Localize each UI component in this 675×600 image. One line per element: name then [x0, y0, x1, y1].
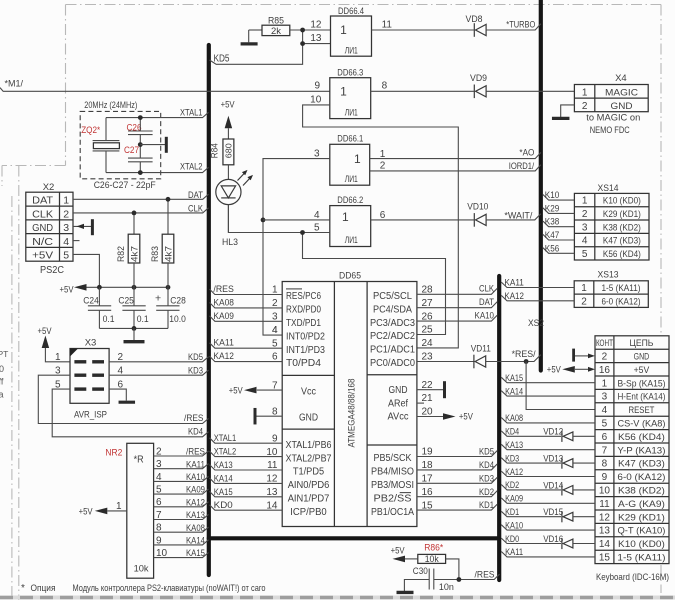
svg-text:25: 25: [422, 325, 434, 336]
ground stub of crystal caps: [140, 144, 165, 146]
svg-text:PB4/MISO: PB4/MISO: [371, 467, 414, 478]
wire net KD0 to XS2 via VD16: [501, 538, 561, 543]
connector XS14: [574, 193, 649, 260]
svg-text:XTAL1: XTAL1: [214, 433, 237, 444]
svg-text:KA12: KA12: [186, 497, 205, 508]
junction dot XTAL1/C26: [138, 115, 143, 120]
svg-text:8: 8: [382, 80, 388, 91]
svg-text:K10 (KD0): K10 (KD0): [618, 539, 665, 550]
svg-text:KA14: KA14: [214, 473, 233, 484]
svg-text:DD66.4: DD66.4: [338, 6, 364, 17]
svg-text:2: 2: [602, 352, 608, 363]
svg-text:PT: PT: [0, 349, 8, 359]
wire DD65 net KD5 to keyboard bus: [417, 451, 497, 457]
svg-text:KA11: KA11: [504, 278, 524, 289]
svg-text:T1/PD5: T1/PD5: [293, 467, 325, 478]
wire DD65 pin27 DAT: [417, 302, 497, 308]
microcontroller DD65 ATMEGA48/88/168: [282, 282, 417, 527]
wire net KA11 to XS13: [501, 282, 574, 287]
wire net K56 to XS14: [543, 248, 575, 254]
connector X3: [70, 349, 109, 404]
svg-text:VD11: VD11: [471, 344, 491, 355]
svg-text:ЦЕПЬ: ЦЕПЬ: [629, 338, 653, 349]
svg-text:3: 3: [582, 222, 588, 233]
wire net K38 to XS14: [543, 221, 575, 227]
svg-text:3: 3: [314, 149, 320, 160]
svg-text:K56 (KD4): K56 (KD4): [603, 249, 641, 260]
svg-text:DD65: DD65: [339, 270, 361, 281]
ground at X3 pin6: [109, 389, 126, 400]
svg-text:5: 5: [582, 249, 588, 260]
wire DD65 pin3 KA09: [210, 316, 283, 321]
svg-text:/RES: /RES: [213, 284, 234, 295]
svg-text:AVcc: AVcc: [388, 412, 409, 423]
wire net KD4 (X3 pin5): [52, 389, 208, 437]
wire NR2 pin9 net KA14: [154, 540, 209, 545]
svg-text:KA09: KA09: [213, 311, 234, 322]
svg-text:10: 10: [156, 548, 168, 559]
svg-text:KA09: KA09: [186, 485, 205, 496]
svg-text:KD5: KD5: [479, 447, 494, 458]
svg-text:ЛИ1: ЛИ1: [345, 235, 358, 245]
svg-text:PS2C: PS2C: [40, 265, 64, 276]
svg-text:KA08: KA08: [505, 413, 523, 424]
stub X2 pin4 N/C: [73, 240, 80, 242]
svg-text:4: 4: [602, 405, 608, 416]
wire NR2 pin10 net KA15: [154, 553, 209, 558]
wire NR2 pin6 net KA12: [154, 502, 209, 507]
svg-text:R83: R83: [150, 246, 160, 262]
resistor R85: [249, 29, 262, 31]
dashed box around crystal: [80, 111, 161, 178]
svg-text:2: 2: [156, 446, 162, 457]
gate DD66.3: [330, 78, 371, 119]
svg-text:R86*: R86*: [424, 542, 443, 553]
gate DD66.1: [330, 144, 370, 185]
svg-text:IORD1/: IORD1/: [509, 161, 535, 172]
svg-text:7: 7: [156, 510, 162, 521]
svg-text:KA12: KA12: [504, 291, 524, 302]
wire DD65 net KD1 to keyboard bus: [417, 504, 497, 510]
svg-text:Опция: Опция: [31, 583, 56, 594]
svg-text:12: 12: [599, 512, 611, 523]
svg-text:14: 14: [599, 539, 611, 550]
svg-text:KD4: KD4: [505, 427, 519, 438]
svg-text:C27: C27: [124, 145, 139, 156]
svg-text:K38: K38: [545, 217, 560, 228]
svg-text:KA12: KA12: [505, 467, 523, 478]
svg-text:K47: K47: [545, 230, 560, 241]
connector XS13: [574, 281, 648, 308]
svg-text:15: 15: [599, 553, 611, 564]
wire DD65 net KD3 to keyboard bus: [417, 477, 497, 483]
svg-text:1: 1: [55, 352, 61, 363]
svg-text:+: +: [155, 293, 161, 305]
svg-text:1: 1: [340, 84, 347, 98]
svg-text:КОНТ: КОНТ: [596, 338, 613, 348]
wire DD65 pin1 /RES: [210, 289, 283, 294]
svg-text:GND: GND: [32, 222, 53, 234]
bus bottom horizontal: [209, 536, 499, 540]
wire R85 to DD66.4 pins 12/13: [290, 29, 331, 31]
wire net DAT (X2 pin1): [73, 194, 209, 199]
svg-text:Y-P (KA13): Y-P (KA13): [617, 445, 665, 456]
svg-text:KA11: KA11: [213, 338, 234, 349]
svg-text:+5V: +5V: [547, 365, 562, 376]
wire net /RES (X3 pin3): [38, 375, 208, 423]
svg-text:8: 8: [156, 523, 162, 534]
wire NR2 pin7 net KA13: [154, 514, 209, 519]
wire NR2 pin2 net /RES: [154, 451, 209, 456]
svg-text:R84: R84: [209, 143, 219, 158]
diode VD10: [371, 219, 474, 221]
svg-text:T0/PD4: T0/PD4: [286, 358, 321, 369]
svg-text:KD4: KD4: [188, 427, 203, 438]
svg-text:DAT: DAT: [32, 195, 54, 207]
svg-text:DAT: DAT: [479, 297, 494, 308]
svg-text:INT1/PD3: INT1/PD3: [286, 345, 325, 356]
svg-text:K29 (KD1): K29 (KD1): [603, 209, 641, 220]
svg-text:R82: R82: [116, 246, 126, 262]
svg-text:KD3: KD3: [505, 453, 519, 464]
svg-text:CLK: CLK: [479, 284, 495, 295]
diode VD9: [371, 90, 474, 92]
diode VD11 and net *RES/: [417, 361, 474, 363]
svg-text:ICP/PB0: ICP/PB0: [290, 507, 327, 518]
svg-text:PC4/SDA: PC4/SDA: [373, 304, 412, 315]
svg-text:6-0 (KA12): 6-0 (KA12): [602, 296, 641, 307]
wire DD65 pin net XTAL2: [210, 451, 283, 456]
svg-text:13: 13: [310, 33, 322, 44]
svg-text:680: 680: [224, 143, 234, 158]
svg-text:XS13: XS13: [598, 270, 619, 281]
wire net KA09 to XS2: [501, 498, 595, 503]
svg-text:10k: 10k: [425, 554, 439, 564]
wire net KD3 (X3 pin4): [109, 370, 208, 375]
ground at XS2 pin2: [572, 349, 575, 362]
svg-text:C26: C26: [127, 122, 142, 133]
svg-text:KD5: KD5: [188, 352, 203, 363]
resistor R84: [223, 139, 234, 165]
wire net *AO: [370, 153, 541, 159]
ground at X2 pin3: [73, 225, 91, 227]
svg-text:X4: X4: [615, 73, 627, 84]
svg-text:VD14: VD14: [543, 480, 563, 491]
svg-text:0: 0: [0, 364, 4, 374]
svg-text:CLK: CLK: [188, 203, 204, 214]
wire DD65 pin28 CLK to keyboard bus: [417, 288, 497, 294]
svg-text:1: 1: [602, 378, 608, 389]
svg-text:ЛИ1: ЛИ1: [345, 108, 358, 118]
svg-text:K38 (KD2): K38 (KD2): [603, 222, 641, 233]
ground at C30: [397, 591, 414, 594]
svg-text:GND: GND: [611, 101, 633, 112]
resistor R83: [167, 199, 169, 234]
svg-text:+5V: +5V: [38, 326, 53, 337]
svg-text:C26-C27 - 22pF: C26-C27 - 22pF: [94, 180, 156, 191]
svg-text:4: 4: [582, 236, 588, 247]
wire DD65 net KD4 to keyboard bus: [417, 464, 497, 470]
svg-text:DD66.2: DD66.2: [337, 195, 363, 206]
wire DD66.2 pin5 / HL3 cathode / DD65 pin25: [228, 205, 329, 233]
wire net K47 to XS14: [543, 234, 575, 240]
svg-text:1: 1: [116, 501, 122, 512]
svg-text:/RES: /RES: [184, 413, 204, 424]
svg-text:*R: *R: [134, 454, 144, 465]
svg-text:Vcc: Vcc: [301, 386, 316, 397]
wire RESET from *RES/ to XS2 pin4: [526, 362, 595, 410]
svg-text:K10 (KD0): K10 (KD0): [603, 196, 641, 207]
svg-text:a: a: [0, 390, 4, 400]
connector X4: [574, 85, 648, 112]
svg-text:10n: 10n: [439, 582, 454, 593]
wire DD65 pin net KD0: [210, 505, 283, 510]
svg-text:X3: X3: [85, 337, 97, 348]
wire R86 to /RES node: [446, 559, 459, 580]
svg-text:C30: C30: [413, 566, 428, 577]
junction dots on +5V rail: [97, 285, 102, 290]
svg-text:K56: K56: [545, 243, 560, 254]
svg-text:KA09: KA09: [505, 494, 523, 505]
svg-text:4k7: 4k7: [129, 246, 139, 262]
svg-text:+5V: +5V: [221, 100, 236, 111]
svg-text:KA10: KA10: [505, 520, 523, 531]
wire XTAL2 bottom: [106, 167, 209, 172]
svg-text:16: 16: [599, 365, 611, 376]
svg-text:PC3/ADC3: PC3/ADC3: [370, 318, 415, 329]
svg-text:C25: C25: [118, 295, 133, 306]
svg-text:KA11: KA11: [505, 547, 523, 558]
wire net KA12 to XS13: [501, 295, 574, 300]
svg-text:XTAL1: XTAL1: [180, 107, 203, 118]
svg-text:11: 11: [382, 20, 393, 31]
svg-text:KD3: KD3: [188, 366, 203, 377]
svg-text:B-Sp (KA15): B-Sp (KA15): [617, 378, 665, 389]
svg-text:KA15: KA15: [505, 373, 523, 384]
svg-text:K38 (KD2): K38 (KD2): [618, 486, 665, 497]
wire net KD4 to XS2 via VD12: [501, 431, 561, 436]
wire net /RES to keyboard bus: [434, 574, 500, 579]
svg-text:A-G (KA9): A-G (KA9): [618, 499, 665, 510]
wire DD65 pin6 KA12: [210, 356, 283, 361]
svg-text:KA15: KA15: [214, 487, 233, 498]
svg-text:5: 5: [272, 338, 278, 349]
ground DD65 pin22: [417, 389, 443, 391]
svg-text:*M1/: *M1/: [5, 78, 24, 89]
svg-text:1: 1: [582, 87, 588, 98]
svg-text:VD15: VD15: [543, 507, 563, 518]
svg-text:9: 9: [602, 472, 608, 483]
svg-text:23: 23: [422, 352, 434, 363]
connector XS2 table: [595, 336, 669, 564]
wire net K29 to XS14: [543, 208, 575, 214]
wire DD66.2 pin4: [263, 219, 330, 221]
svg-text:AIN0/PD6: AIN0/PD6: [288, 480, 330, 491]
wire DD65 pin net KA13: [210, 465, 283, 470]
op-amp gate DD66.4: [331, 16, 372, 56]
svg-text:CS-V (KA8): CS-V (KA8): [617, 419, 665, 430]
svg-text:+5V: +5V: [391, 546, 406, 557]
wire net KA11 to XS2: [501, 552, 595, 557]
svg-text:C28: C28: [170, 295, 186, 306]
svg-text:7: 7: [602, 445, 608, 456]
svg-text:XS14: XS14: [598, 183, 619, 194]
svg-text:+5V: +5V: [229, 385, 244, 396]
svg-text:3: 3: [156, 459, 162, 470]
svg-text:RXD/PD0: RXD/PD0: [286, 305, 321, 316]
wire net K10 to XS14: [543, 195, 575, 201]
wire NR2 pin3 net KA11: [154, 464, 209, 469]
svg-text:2k: 2k: [271, 26, 282, 36]
wire NR2 pin5 net KA09: [154, 489, 209, 494]
svg-text:24: 24: [422, 338, 434, 349]
svg-text:KD0: KD0: [214, 500, 233, 511]
wire net KA15 to XS2: [501, 377, 595, 382]
svg-text:ATMEGA48/88/168: ATMEGA48/88/168: [347, 379, 358, 448]
svg-text:1: 1: [342, 210, 349, 224]
svg-text:C24: C24: [83, 295, 99, 306]
svg-text:3: 3: [602, 392, 608, 403]
+5V arrow DD65 pin7: [257, 389, 282, 391]
svg-text:13: 13: [599, 526, 611, 537]
svg-text:10k: 10k: [134, 564, 149, 575]
svg-text:2: 2: [582, 101, 588, 112]
svg-text:*TURBO: *TURBO: [506, 20, 535, 31]
svg-text:VD8: VD8: [466, 14, 483, 25]
svg-text:CLK: CLK: [32, 208, 53, 220]
svg-text:AVR_ISP: AVR_ISP: [74, 409, 107, 420]
wire X2 pin5 +5V: [73, 254, 99, 287]
svg-text:K10: K10: [545, 190, 560, 201]
svg-text:21: 21: [422, 393, 434, 404]
bus keyboard vertical: [497, 276, 501, 580]
svg-text:VD16: VD16: [543, 534, 563, 545]
svg-text:20: 20: [422, 406, 434, 417]
svg-text:6: 6: [156, 497, 162, 508]
svg-text:MAGIC: MAGIC: [605, 87, 638, 98]
svg-text:X2: X2: [43, 182, 55, 193]
svg-text:4k7: 4k7: [163, 246, 173, 262]
svg-text:KA10: KA10: [475, 310, 495, 321]
svg-text:11: 11: [599, 499, 610, 510]
svg-text:DD66.3: DD66.3: [337, 67, 363, 78]
svg-text:XTAL2: XTAL2: [214, 447, 237, 458]
svg-text:+5V: +5V: [60, 284, 75, 295]
wire DD65 pin26 KA10: [417, 315, 497, 321]
ground DD65 pin8: [256, 415, 282, 417]
junction dot C26/C27 midpoint: [138, 142, 143, 147]
svg-text:VD9: VD9: [470, 73, 487, 84]
svg-text:XTAL2/PB7: XTAL2/PB7: [286, 453, 332, 464]
wire DD65 pin net KA15: [210, 491, 283, 496]
wire net KA08 to XS2: [501, 418, 595, 423]
svg-text:KA14: KA14: [186, 536, 205, 547]
svg-text:4: 4: [156, 472, 162, 483]
wire net KD1 to XS2 via VD15: [501, 511, 561, 516]
wire net *M1/: [0, 88, 330, 92]
svg-text:KD1: KD1: [479, 500, 494, 511]
svg-text:RES/PC6: RES/PC6: [286, 291, 321, 302]
svg-text:K47 (KD3): K47 (KD3): [618, 459, 665, 470]
bus KD/KA left vertical: [207, 45, 211, 575]
svg-text:AIN1/PD7: AIN1/PD7: [288, 494, 330, 505]
svg-text:NR2: NR2: [105, 448, 122, 459]
svg-text:KA13: KA13: [186, 510, 205, 521]
svg-text:/RES: /RES: [475, 569, 495, 580]
svg-text:2: 2: [582, 209, 588, 220]
LED HL3: [216, 179, 241, 204]
wire NR2 pin8 net KA08: [154, 527, 209, 532]
svg-text:12: 12: [310, 20, 322, 31]
svg-text:K29 (KD1): K29 (KD1): [618, 512, 665, 523]
svg-text:1-5 (KA11): 1-5 (KA11): [617, 553, 665, 564]
ground rail under capacitors: [99, 327, 168, 329]
svg-text:1: 1: [354, 152, 361, 166]
svg-text:HL3: HL3: [222, 237, 238, 248]
svg-text:KD3: KD3: [479, 473, 494, 484]
svg-text:2: 2: [380, 160, 386, 171]
junction dot XTAL2/C27: [138, 170, 143, 175]
svg-text:6: 6: [602, 432, 608, 443]
svg-text:ZQ2*: ZQ2*: [81, 125, 100, 136]
svg-text:10: 10: [310, 94, 322, 105]
svg-text:2: 2: [581, 296, 587, 307]
svg-text:to MAGIC on: to MAGIC on: [586, 113, 640, 124]
svg-text:*WAIT/: *WAIT/: [504, 210, 532, 221]
junction dot pin3/pin4 net: [261, 218, 266, 223]
wire XTAL1 top: [106, 112, 209, 117]
svg-text:XTAL2: XTAL2: [180, 161, 203, 172]
svg-text:5: 5: [63, 250, 69, 262]
ground at X4 pin2: [561, 105, 575, 117]
svg-text:1-5 (KA11): 1-5 (KA11): [602, 283, 641, 294]
svg-text:1: 1: [340, 23, 347, 37]
svg-text:PC5/SCL: PC5/SCL: [373, 291, 412, 302]
svg-text:GND: GND: [299, 412, 318, 423]
svg-text:RESET: RESET: [628, 405, 654, 416]
svg-text:1: 1: [63, 195, 69, 207]
svg-text:4: 4: [272, 325, 278, 336]
svg-text:KA13: KA13: [214, 460, 233, 471]
wire net KD5 (X3 pin2): [109, 357, 208, 362]
svg-text:PC0/ADC0: PC0/ADC0: [370, 358, 415, 369]
svg-text:KD4: KD4: [479, 460, 494, 471]
wire DD65 pin net XTAL1: [210, 438, 283, 443]
svg-text:9: 9: [314, 80, 320, 91]
svg-text:3: 3: [63, 222, 69, 234]
wire DD65 pin net KA14: [210, 478, 283, 483]
ground for R85: [248, 30, 250, 42]
svg-text:5: 5: [602, 419, 608, 430]
wire DD65 net KD2 to keyboard bus: [417, 491, 497, 497]
junction dots R85/pins: [300, 28, 305, 33]
svg-text:INT0/PD2: INT0/PD2: [286, 331, 325, 342]
bus right vertical (TURBO/WAIT/RES): [539, 0, 543, 371]
svg-text:VD10: VD10: [467, 202, 488, 213]
svg-text:+5V: +5V: [459, 412, 474, 423]
svg-text:10.0: 10.0: [169, 314, 186, 325]
wire DD65 pin5 KA11: [210, 343, 283, 348]
svg-text:2: 2: [63, 208, 69, 220]
wire DD66.1 pin3 / DD66.2 pin4 to DD65 pin4: [263, 159, 330, 336]
svg-text:KD5: KD5: [214, 54, 230, 65]
svg-text:KA10: KA10: [186, 472, 205, 483]
wire net KD3 to XS2 via VD13: [501, 458, 561, 463]
resistor R82: [133, 213, 135, 234]
svg-text:Модуль контроллера PS2-клавиат: Модуль контроллера PS2-клавиатуры (noWAI…: [73, 583, 266, 594]
svg-text:PB2/SS: PB2/SS: [374, 493, 412, 504]
svg-text:+5V: +5V: [32, 250, 53, 262]
